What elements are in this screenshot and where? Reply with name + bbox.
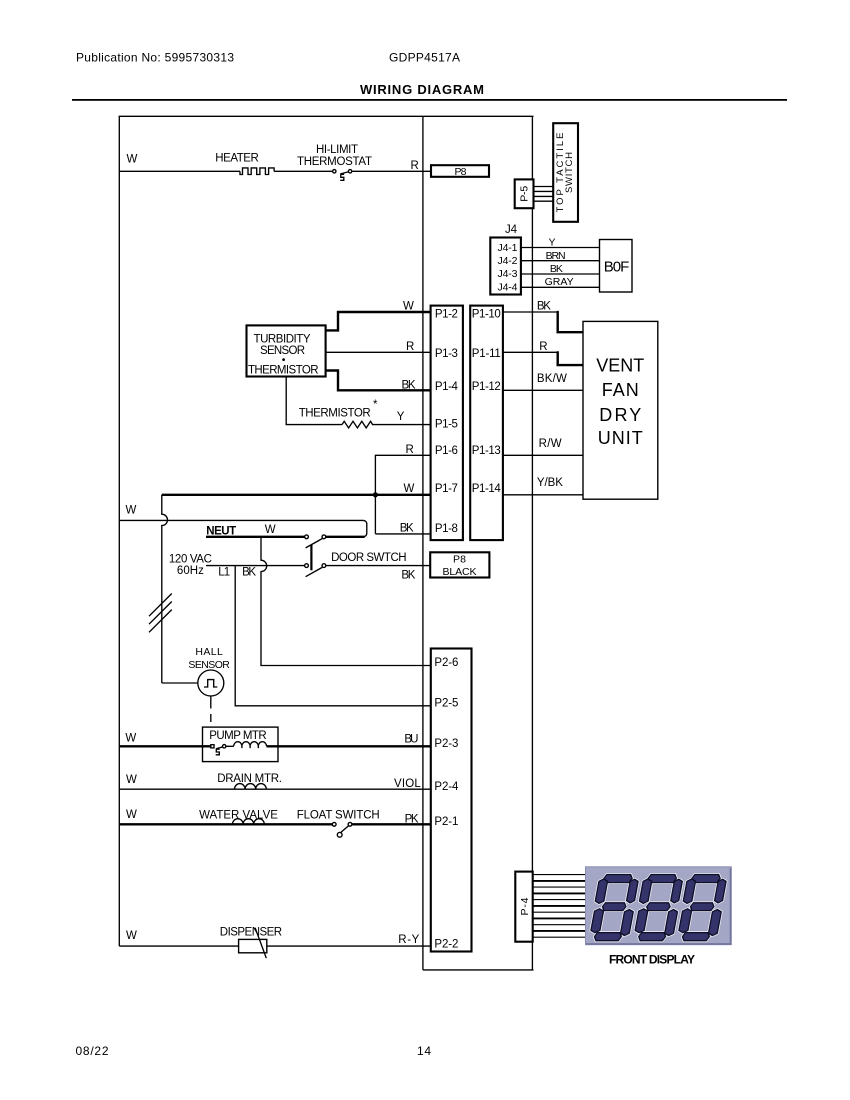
dispenser diagonal xyxy=(255,928,266,958)
wire BK/W P1-12 to vent xyxy=(503,389,583,391)
svg-text:BK: BK xyxy=(400,522,414,534)
wire thermistor to P1-5 xyxy=(372,424,431,426)
hi-limit thermostat switch xyxy=(333,170,352,181)
svg-text:R: R xyxy=(539,341,547,353)
wire thermistor drop xyxy=(286,377,342,425)
svg-text:J4-4: J4-4 xyxy=(498,281,518,293)
svg-text:THERMISTOR: THERMISTOR xyxy=(299,408,371,420)
front display panel xyxy=(586,867,732,945)
door switch lower contact xyxy=(305,564,326,577)
wire to hall sensor xyxy=(162,682,198,684)
wire W turbidity to P1-2 xyxy=(326,312,431,330)
svg-text:P1-4: P1-4 xyxy=(435,381,459,393)
svg-text:B0F: B0F xyxy=(604,259,630,276)
wire neut drop to P2-6 with hop xyxy=(261,537,431,666)
display digit 1 xyxy=(588,875,640,941)
svg-text:J4-2: J4-2 xyxy=(498,255,518,267)
enclosure top edge xyxy=(119,115,534,117)
svg-text:VENT: VENT xyxy=(596,356,644,376)
svg-text:J4: J4 xyxy=(505,224,518,236)
wire hall sensor dashed xyxy=(210,696,212,722)
svg-text:Y/BK: Y/BK xyxy=(537,477,563,489)
svg-text:BK: BK xyxy=(401,570,415,582)
svg-text:P2-6: P2-6 xyxy=(434,657,458,669)
neut return corner xyxy=(363,520,367,536)
enclosure bottom edge xyxy=(423,969,534,971)
display digit 3 xyxy=(676,875,728,941)
svg-text:W: W xyxy=(265,524,276,536)
svg-text:W: W xyxy=(126,774,137,786)
wire J4-2 BRN xyxy=(521,260,600,262)
svg-text:BK: BK xyxy=(242,567,256,579)
svg-text:W: W xyxy=(403,301,414,313)
connector P1 column 1 xyxy=(431,306,463,540)
svg-text:THERMISTOR: THERMISTOR xyxy=(248,364,319,376)
svg-text:P1-3: P1-3 xyxy=(435,348,458,360)
svg-text:HI-LIMIT: HI-LIMIT xyxy=(316,144,358,156)
door switch upper contact xyxy=(305,535,326,548)
svg-text:Y: Y xyxy=(397,411,405,423)
connector P-4 xyxy=(515,872,532,942)
water valve coil xyxy=(233,819,265,825)
enclosure left edge xyxy=(118,116,120,946)
svg-text:08/22: 08/22 xyxy=(76,1044,109,1058)
wire J4-1 Y xyxy=(521,247,600,249)
svg-text:BK/W: BK/W xyxy=(537,373,567,385)
svg-text:P8: P8 xyxy=(455,166,467,178)
svg-text:P8: P8 xyxy=(453,553,466,565)
connector P1 column 2 xyxy=(470,306,503,540)
svg-text:GDPP4517A: GDPP4517A xyxy=(389,51,460,65)
wire water valve xyxy=(119,823,332,825)
svg-text:P1-13: P1-13 xyxy=(472,445,501,457)
heater element HEATER xyxy=(240,168,274,175)
wire pump inside stub xyxy=(203,745,211,747)
svg-text:W: W xyxy=(126,505,137,517)
svg-text:BLACK: BLACK xyxy=(443,566,477,578)
svg-text:BK: BK xyxy=(402,379,416,391)
svg-text:60Hz: 60Hz xyxy=(177,565,204,577)
hall sensor pulse symbol xyxy=(204,680,217,687)
wire vertical W with hop xyxy=(162,495,168,683)
wire heater mid xyxy=(274,170,332,172)
svg-text:L1: L1 xyxy=(218,567,230,579)
svg-text:W: W xyxy=(404,483,415,495)
connector J4 xyxy=(490,238,521,295)
wire BK P1-10 to vent xyxy=(503,311,558,313)
svg-text:R: R xyxy=(411,160,419,172)
door switch link bar xyxy=(310,545,312,571)
svg-text:W: W xyxy=(127,154,138,166)
wire J4-3 BK xyxy=(521,273,600,275)
wire bundle hash marks xyxy=(149,594,172,633)
svg-text:P1-2: P1-2 xyxy=(435,309,458,321)
enclosure right edge xyxy=(531,116,533,970)
wire pump left xyxy=(119,745,209,747)
svg-text:P1-14: P1-14 xyxy=(472,483,502,495)
module B0F xyxy=(600,240,633,293)
svg-text:FAN: FAN xyxy=(602,380,639,400)
svg-text:TURBIDITY: TURBIDITY xyxy=(254,334,311,346)
hall sensor circle xyxy=(198,670,224,696)
wire R P1-11 to vent xyxy=(503,351,558,353)
wire heater left xyxy=(119,170,240,172)
junction dot xyxy=(373,492,378,497)
svg-text:THERMOSTAT: THERMOSTAT xyxy=(297,156,372,168)
svg-text:SWITCH: SWITCH xyxy=(564,152,575,193)
svg-text:W: W xyxy=(125,733,136,745)
pump coil xyxy=(226,742,266,748)
svg-text:P1-8: P1-8 xyxy=(435,523,458,535)
svg-text:R: R xyxy=(406,444,414,456)
svg-text:FRONT DISPLAY: FRONT DISPLAY xyxy=(609,952,695,966)
svg-text:Y: Y xyxy=(549,236,556,248)
wire BK turbidity to P1-4 xyxy=(326,371,431,391)
pump motor box xyxy=(203,727,279,762)
svg-text:P1-10: P1-10 xyxy=(472,309,501,321)
svg-text:PUMP MTR: PUMP MTR xyxy=(209,730,267,742)
svg-text:P2-1: P2-1 xyxy=(434,816,458,828)
svg-text:DOOR SWTCH: DOOR SWTCH xyxy=(331,552,407,564)
wire R to P1-6 xyxy=(375,455,430,534)
svg-text:P1-5: P1-5 xyxy=(435,418,458,430)
svg-text:W: W xyxy=(126,930,137,942)
title rule xyxy=(72,99,787,101)
svg-text:P1-6: P1-6 xyxy=(435,445,458,457)
svg-text:P-4: P-4 xyxy=(519,897,531,915)
connector P2 xyxy=(431,649,472,952)
wire L1 feed xyxy=(206,565,305,567)
ribbon wires P-4 to display xyxy=(534,875,587,938)
svg-text:VIOL: VIOL xyxy=(394,778,421,790)
svg-text:W: W xyxy=(126,809,137,821)
wire Y/BK P1-14 to vent xyxy=(503,494,583,496)
svg-text:UNIT: UNIT xyxy=(598,428,643,448)
svg-text:*: * xyxy=(373,399,378,411)
svg-text:WIRING DIAGRAM: WIRING DIAGRAM xyxy=(360,82,484,97)
display digit 2 xyxy=(632,875,684,941)
turbidity sensor thermistor box xyxy=(247,325,326,376)
float switch contacts xyxy=(332,822,352,837)
svg-text:FLOAT SWITCH: FLOAT SWITCH xyxy=(297,810,380,822)
svg-text:14: 14 xyxy=(417,1044,431,1058)
svg-text:DISPENSER: DISPENSER xyxy=(220,926,282,938)
pump switch xyxy=(211,745,226,755)
svg-text:Publication No: 5995730313: Publication No: 5995730313 xyxy=(76,51,234,65)
wire L1 drop to P2-5 xyxy=(235,566,431,706)
svg-text:J4-1: J4-1 xyxy=(498,242,518,254)
svg-text:SENSOR: SENSOR xyxy=(260,345,305,357)
svg-text:120 VAC: 120 VAC xyxy=(169,553,212,565)
svg-text:HALL: HALL xyxy=(195,646,223,658)
svg-text:BU: BU xyxy=(404,733,418,745)
connector P-5 xyxy=(515,179,534,208)
drain coil xyxy=(235,784,267,790)
wires P-5 to tactile switch xyxy=(534,187,554,202)
svg-text:BK: BK xyxy=(537,301,551,313)
wire W long to P1-7 xyxy=(162,494,431,496)
vent fan dry unit box xyxy=(583,321,658,499)
svg-text:PK: PK xyxy=(405,814,419,826)
svg-text:J4-3: J4-3 xyxy=(498,268,518,280)
svg-text:WATER VALVE: WATER VALVE xyxy=(199,809,278,821)
wire left edge to neut return xyxy=(119,519,363,521)
svg-text:R: R xyxy=(406,341,414,353)
svg-text:P1-7: P1-7 xyxy=(435,483,458,495)
wire NEUT underline feed xyxy=(206,536,305,538)
control board trunk line xyxy=(422,116,424,970)
svg-text:DRY: DRY xyxy=(599,405,641,425)
svg-text:P-5: P-5 xyxy=(519,186,531,202)
svg-text:HEATER: HEATER xyxy=(215,153,258,165)
svg-text:R/W: R/W xyxy=(539,438,562,450)
svg-text:P2-3: P2-3 xyxy=(434,738,458,750)
svg-text:BK: BK xyxy=(550,263,563,275)
connector P8 BLACK xyxy=(430,552,489,578)
svg-text:GRAY: GRAY xyxy=(545,276,574,288)
svg-text:SENSOR: SENSOR xyxy=(188,659,230,671)
wire pump right xyxy=(267,745,431,747)
connector P8 top xyxy=(431,165,489,178)
svg-text:P1-11: P1-11 xyxy=(472,348,501,360)
svg-text:P2-2: P2-2 xyxy=(434,938,458,950)
svg-text:P2-4: P2-4 xyxy=(434,781,459,793)
wire drain xyxy=(119,788,431,790)
wire J4-4 GRAY xyxy=(521,286,600,288)
wire door switch to P8 black xyxy=(326,565,431,567)
wire float switch to P2-1 xyxy=(352,823,431,825)
svg-text:R-Y: R-Y xyxy=(398,934,419,946)
top tactile switch box xyxy=(553,123,578,222)
svg-text:P1-12: P1-12 xyxy=(472,381,501,393)
svg-text:P2-5: P2-5 xyxy=(434,698,458,710)
wire BK to P1-8 xyxy=(375,533,430,535)
thermistor resistor zigzag xyxy=(342,421,373,428)
wire R turbidity to P1-3 xyxy=(326,351,431,353)
dispenser element box xyxy=(239,939,267,952)
svg-text:BRN: BRN xyxy=(546,250,566,262)
wire dispenser xyxy=(119,945,431,947)
wire heater right to P8 xyxy=(352,170,431,172)
wire R/W P1-13 to vent xyxy=(503,454,583,456)
